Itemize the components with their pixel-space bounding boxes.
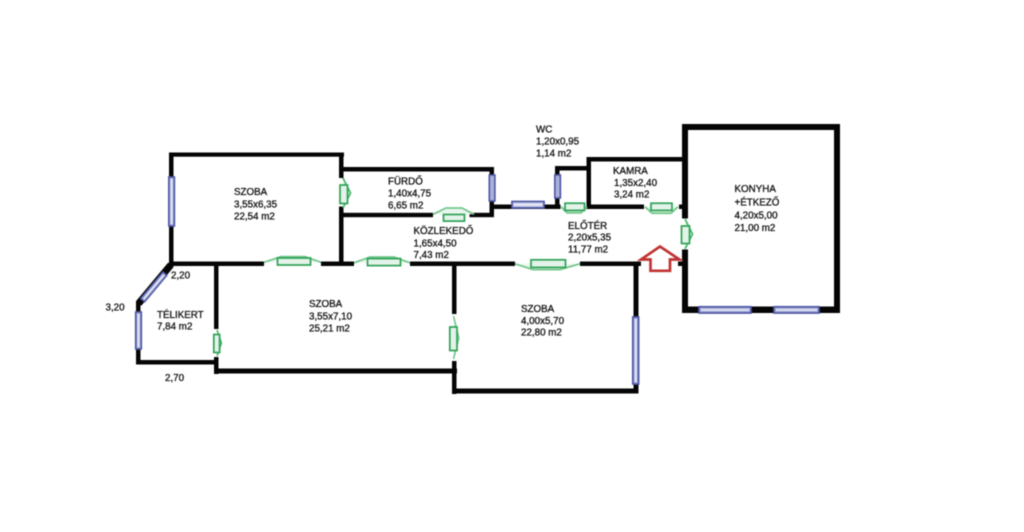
- wall: WC left: [555, 166, 560, 209]
- svg-text:2,20: 2,20: [171, 271, 191, 282]
- svg-text:ELŐTÉR: ELŐTÉR: [568, 221, 607, 232]
- svg-text:1,14 m2: 1,14 m2: [536, 149, 571, 160]
- svg-text:1,20x0,95: 1,20x0,95: [536, 137, 580, 148]
- wall: TELIKERT bottom: [136, 360, 219, 365]
- svg-text:KONYHA: KONYHA: [735, 184, 777, 195]
- svg-text:1,40x4,75: 1,40x4,75: [388, 189, 432, 200]
- svg-text:4,00x5,70: 4,00x5,70: [521, 316, 565, 327]
- svg-text:KAMRA: KAMRA: [613, 166, 648, 177]
- svg-text:21,00 m2: 21,00 m2: [735, 223, 776, 234]
- wall: FURDO right: [490, 167, 495, 217]
- door: SZOBA2-SZOBA3 (vertical swing right): [450, 316, 459, 359]
- svg-text:TÉLIKERT: TÉLIKERT: [157, 310, 204, 321]
- door: A SZOBA1-SZOBA2 (swing up): [264, 257, 321, 265]
- entrance arrow (red): [641, 247, 680, 271]
- window: FURDO right wall: [489, 175, 495, 201]
- window: KONYHA bottom 1: [699, 307, 751, 313]
- window: horizontal FURDO-WC: [512, 202, 544, 208]
- wall: TELIKERT left: [136, 301, 141, 365]
- wall: SZOBA1 left: [169, 153, 174, 267]
- svg-text:2,70: 2,70: [165, 373, 185, 384]
- wall: FURDO top: [343, 167, 494, 172]
- svg-text:SZOBA: SZOBA: [521, 304, 555, 315]
- wall: ELOTER top segment under KAMRA left: [587, 205, 644, 210]
- wall: FURDO bottom left segment: [343, 213, 433, 217]
- wall: SZOBA1 top: [169, 153, 344, 157]
- wall: TELIKERT diagonal: [136, 263, 174, 306]
- door: FURDO bottom (swing up): [433, 208, 474, 221]
- wall: KAMRA left: [587, 157, 592, 209]
- wall: FURDO bottom right segment: [470, 213, 495, 217]
- door: B KOZLEKEDO-SZOBA2 (swing up): [354, 257, 410, 266]
- wall: TELIKERT right upper: [214, 262, 219, 330]
- window: SZOBA1 left wall: [169, 177, 175, 226]
- wall: SZOBA3 right: [634, 262, 639, 394]
- wall: long wall left segment (SZOBA1 bottom): [169, 262, 264, 267]
- door: C ELOTER-SZOBA3 (swing down): [515, 260, 580, 270]
- wall: SZOBA1 right lower: [339, 207, 344, 267]
- svg-text:3,55x6,35: 3,55x6,35: [234, 200, 278, 211]
- wall: KONYHA bottom: [682, 307, 840, 314]
- svg-text:+ÉTKEZŐ: +ÉTKEZŐ: [735, 198, 780, 209]
- wall: long wall between door A and B: [321, 262, 354, 267]
- svg-text:22,54 m2: 22,54 m2: [234, 212, 275, 223]
- window: WC left wall: [555, 175, 561, 198]
- svg-text:KÖZLEKEDŐ: KÖZLEKEDŐ: [414, 226, 474, 237]
- door: KONYHA (vertical, swing right): [682, 219, 693, 249]
- svg-text:22,80 m2: 22,80 m2: [521, 328, 562, 339]
- wall: SZOBA2/SZOBA3 divider lower: [452, 361, 457, 394]
- window: SZOBA3 right wall: [633, 317, 639, 384]
- door: SZOBA1 to FURDO (vertical, swing right): [340, 178, 351, 208]
- svg-text:1,35x2,40: 1,35x2,40: [614, 178, 658, 189]
- svg-text:3,20: 3,20: [106, 303, 126, 314]
- wall: SZOBA1 right upper (to FURDO door): [339, 153, 344, 179]
- wall: KONYHA left upper: [682, 124, 688, 219]
- svg-text:6,65 m2: 6,65 m2: [388, 201, 423, 212]
- wall: ELOTER top (FURDO-WC): [490, 205, 561, 210]
- svg-text:25,21 m2: 25,21 m2: [309, 324, 350, 335]
- svg-text:7,43 m2: 7,43 m2: [414, 250, 449, 261]
- wall: long wall between door C and entrance: [580, 262, 641, 267]
- wall: SZOBA2 bottom: [214, 369, 457, 374]
- door: KAMRA (swing down): [645, 203, 678, 213]
- svg-text:SZOBA: SZOBA: [234, 187, 268, 198]
- svg-text:1,65x4,50: 1,65x4,50: [414, 239, 458, 250]
- wall: KAMRA top: [587, 157, 688, 162]
- svg-text:WC: WC: [536, 125, 552, 136]
- window: TELIKERT diagonal: [141, 272, 167, 302]
- wall: long wall between door B and C: [410, 262, 515, 267]
- wall: WC top: [555, 166, 591, 171]
- wall: KONYHA left lower: [682, 250, 688, 314]
- wall: entrance right stub: [678, 262, 688, 267]
- wall: SZOBA2/SZOBA3 divider upper: [452, 262, 457, 315]
- window: KONYHA bottom 2: [774, 307, 819, 313]
- wall: SZOBA3 bottom: [452, 389, 639, 394]
- door: TELIKERT-SZOBA2 (vertical swing right): [214, 330, 222, 356]
- svg-text:SZOBA: SZOBA: [309, 299, 343, 310]
- wall: ELOTER top right stub: [679, 205, 688, 210]
- window: TELIKERT left wall: [136, 312, 142, 349]
- svg-text:3,24 m2: 3,24 m2: [614, 190, 649, 201]
- wall: KONYHA right: [834, 124, 840, 313]
- svg-text:FÜRDŐ: FÜRDŐ: [388, 177, 423, 188]
- door: WC (swing down): [561, 203, 587, 213]
- svg-text:4,20x5,00: 4,20x5,00: [735, 211, 779, 222]
- wall: KONYHA top: [682, 124, 840, 130]
- svg-text:3,55x7,10: 3,55x7,10: [309, 312, 353, 323]
- wall: TELIKERT right lower: [214, 357, 219, 374]
- svg-text:11,77 m2: 11,77 m2: [568, 245, 608, 256]
- svg-text:2,20x5,35: 2,20x5,35: [568, 233, 612, 244]
- svg-text:7,84 m2: 7,84 m2: [157, 322, 192, 333]
